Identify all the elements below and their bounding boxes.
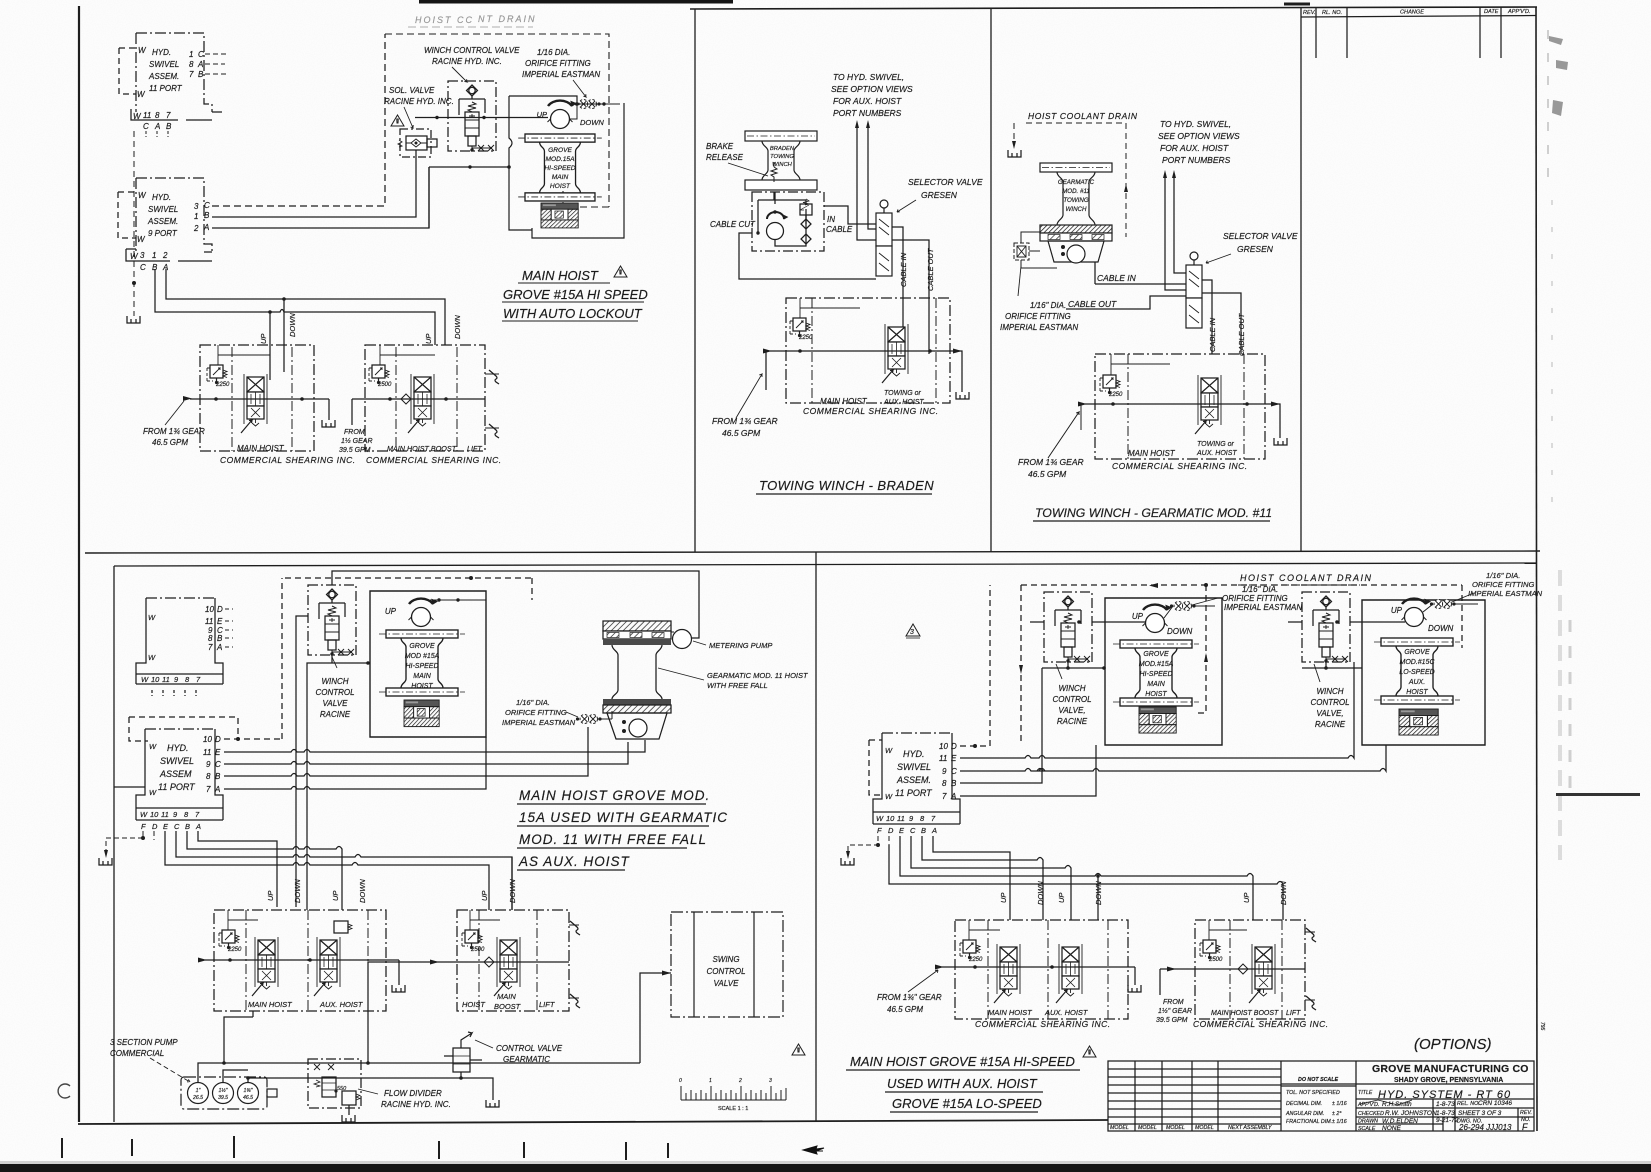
svg-text:BOOST: BOOST xyxy=(494,1002,522,1011)
wire B xyxy=(224,727,588,776)
svg-text:HI-SPEED: HI-SPEED xyxy=(1139,671,1172,678)
svg-text:REV.: REV. xyxy=(1520,1110,1532,1116)
svg-text:2500: 2500 xyxy=(1208,957,1223,963)
svg-text:W: W xyxy=(140,810,148,819)
grove mod 15A hoist drum xyxy=(518,134,602,201)
svg-text:FROM 1¾ GEAR: FROM 1¾ GEAR xyxy=(143,427,205,436)
main title free fall xyxy=(518,788,728,869)
svg-text:3: 3 xyxy=(910,629,914,636)
svg-text:HOIST: HOIST xyxy=(1406,689,1428,696)
svg-text:ORIFICE FITTING: ORIFICE FITTING xyxy=(525,59,591,68)
svg-text:B: B xyxy=(198,70,204,79)
winch control valve 1 xyxy=(1044,592,1092,663)
svg-text:9: 9 xyxy=(942,767,947,776)
wire A xyxy=(960,745,1096,796)
svg-text:FROM 1¾ GEAR: FROM 1¾ GEAR xyxy=(712,416,778,426)
svg-text:1/16" DIA.: 1/16" DIA. xyxy=(1242,585,1278,594)
svg-text:SCALE: SCALE xyxy=(1358,1126,1376,1132)
svg-text:10: 10 xyxy=(939,742,948,751)
svg-text:CABLE IN: CABLE IN xyxy=(899,252,908,287)
svg-text:8: 8 xyxy=(942,779,947,788)
svg-text:FROM 1¾ GEAR: FROM 1¾ GEAR xyxy=(1018,457,1084,467)
svg-text:CRN 10346: CRN 10346 xyxy=(1478,1100,1512,1107)
to hyd swivel note xyxy=(1158,119,1240,165)
svg-text:HYD.: HYD. xyxy=(152,193,171,202)
svg-text:8: 8 xyxy=(189,60,194,69)
control valve gearmatic xyxy=(444,1032,493,1100)
svg-text:TO HYD. SWIVEL,: TO HYD. SWIVEL, xyxy=(1160,119,1231,129)
svg-text:WITH FREE FALL: WITH FREE FALL xyxy=(707,681,768,690)
svg-text:1½ GEAR: 1½ GEAR xyxy=(341,437,373,445)
svg-text:46.5 GPM: 46.5 GPM xyxy=(887,1005,923,1014)
svg-text:W: W xyxy=(885,792,893,801)
svg-text:11 PORT: 11 PORT xyxy=(895,788,933,798)
svg-text:RACINE HYD. INC.: RACINE HYD. INC. xyxy=(384,97,454,106)
svg-text:DOWN: DOWN xyxy=(358,879,367,903)
svg-text:UP: UP xyxy=(1391,606,1403,615)
svg-text:RACINE HYD. INC.: RACINE HYD. INC. xyxy=(432,57,502,66)
svg-text:SELECTOR VALVE: SELECTOR VALVE xyxy=(1223,231,1298,241)
dashed riser hoist1 xyxy=(1196,585,1206,713)
svg-text:2: 2 xyxy=(162,251,168,260)
braden towing winch drum xyxy=(745,131,817,190)
svg-text:E: E xyxy=(217,617,223,626)
columns down into bank1 xyxy=(270,299,284,380)
svg-text:CONTROL: CONTROL xyxy=(706,967,745,976)
svg-text:BRAKE: BRAKE xyxy=(706,142,734,151)
svg-text:46.5 GPM: 46.5 GPM xyxy=(722,428,761,438)
main hoist assembly (free fall panel) xyxy=(370,591,486,737)
svg-text:VALVE,: VALVE, xyxy=(1058,706,1085,715)
svg-text:HYD.: HYD. xyxy=(167,743,189,753)
check valve xyxy=(401,394,411,404)
svg-text:C: C xyxy=(174,822,180,831)
svg-text:1: 1 xyxy=(709,1078,712,1084)
svg-text:SEE OPTION VIEWS: SEE OPTION VIEWS xyxy=(1158,131,1240,141)
svg-text:HI-SPEED: HI-SPEED xyxy=(405,663,438,670)
dashed drain header xyxy=(285,578,532,600)
svg-text:15A USED WITH GEARMATIC: 15A USED WITH GEARMATIC xyxy=(519,810,728,825)
svg-text:MAIN HOIST BOOST: MAIN HOIST BOOST xyxy=(1211,1010,1279,1017)
svg-text:F: F xyxy=(141,822,146,831)
orifice fitting gearmatic xyxy=(1014,232,1057,268)
svg-text:2250: 2250 xyxy=(798,335,813,341)
svg-text:D: D xyxy=(951,742,957,751)
main supply wire xyxy=(415,117,548,119)
svg-text:3: 3 xyxy=(769,1078,772,1084)
svg-text:MAIN HOIST: MAIN HOIST xyxy=(237,444,285,453)
hoist motor xyxy=(548,101,577,129)
svg-text:0: 0 xyxy=(679,1078,682,1084)
svg-text:CABLE OUT: CABLE OUT xyxy=(1068,299,1117,309)
wire riser xyxy=(429,167,509,228)
corner scribble xyxy=(58,1084,70,1098)
svg-text:TOWING or: TOWING or xyxy=(1197,441,1234,448)
svg-text:MAIN: MAIN xyxy=(413,673,431,680)
svg-text:7: 7 xyxy=(942,792,947,801)
svg-text:± 1/16: ± 1/16 xyxy=(1332,1119,1347,1125)
wire risers to swivel xyxy=(855,120,876,240)
svg-text:MAIN: MAIN xyxy=(1147,681,1165,688)
svg-text:COMMERCIAL SHEARING INC.: COMMERCIAL SHEARING INC. xyxy=(803,406,939,416)
svg-text:39.5 GPM: 39.5 GPM xyxy=(339,447,371,454)
wire B xyxy=(960,668,1042,783)
svg-text:B: B xyxy=(204,211,210,220)
line break marks xyxy=(485,374,499,428)
svg-text:1/16" DIA.: 1/16" DIA. xyxy=(1030,301,1066,310)
svg-text:TOL. NOT SPECIFIED: TOL. NOT SPECIFIED xyxy=(1286,1090,1340,1096)
svg-text:CHANGE: CHANGE xyxy=(1400,10,1424,16)
svg-text:REL. NO.: REL. NO. xyxy=(1457,1101,1480,1107)
svg-text:39.5 GPM: 39.5 GPM xyxy=(1156,1017,1188,1024)
feed line bank1 xyxy=(190,399,329,420)
svg-text:FROM 1¾" GEAR: FROM 1¾" GEAR xyxy=(877,993,942,1002)
svg-text:NONE: NONE xyxy=(1382,1125,1401,1132)
wire bundle A xyxy=(198,831,277,907)
svg-text:10: 10 xyxy=(203,735,212,744)
svg-text:MOD. #11: MOD. #11 xyxy=(1062,188,1090,195)
wire C xyxy=(224,742,628,764)
svg-text:LO-SPEED: LO-SPEED xyxy=(1399,669,1434,676)
svg-text:A: A xyxy=(203,223,209,232)
svg-text:39.5: 39.5 xyxy=(218,1095,228,1101)
swing control valve xyxy=(671,912,783,1017)
bottom scan strip xyxy=(0,1164,1651,1172)
wcv risers down xyxy=(296,616,370,910)
svg-text:CABLE OUT: CABLE OUT xyxy=(1237,312,1246,356)
svg-text:WINCH: WINCH xyxy=(772,162,792,168)
swivel mirror profile (upper) xyxy=(136,598,223,696)
svg-text:VALVE: VALVE xyxy=(323,699,349,708)
bundle ground xyxy=(848,836,889,853)
svg-text:26-294 JJJ013: 26-294 JJJ013 xyxy=(1458,1123,1512,1132)
main hoist enclosure xyxy=(509,96,624,238)
svg-text:HOIST COOLANT DRAIN: HOIST COOLANT DRAIN xyxy=(1240,573,1373,583)
hoist coolant drain label (faded) xyxy=(408,14,537,27)
right edge smudges xyxy=(1548,30,1570,860)
wire bundle F ground xyxy=(106,831,154,852)
svg-text:3: 3 xyxy=(194,202,199,211)
svg-text:HOIST: HOIST xyxy=(411,683,433,690)
svg-text:MOD. 11 WITH FREE FALL: MOD. 11 WITH FREE FALL xyxy=(519,832,707,847)
svg-text:2250: 2250 xyxy=(227,947,242,953)
svg-text:WINCH: WINCH xyxy=(1316,687,1343,696)
spool side rails xyxy=(244,324,1275,994)
svg-text:7: 7 xyxy=(206,785,211,794)
svg-text:UP: UP xyxy=(424,334,433,344)
svg-text:FLOW DIVIDER: FLOW DIVIDER xyxy=(384,1089,442,1098)
svg-text:WITH AUTO LOCKOUT: WITH AUTO LOCKOUT xyxy=(503,306,643,321)
svg-text:GEARMATIC MOD. 11 HOIST: GEARMATIC MOD. 11 HOIST xyxy=(707,671,809,680)
wire bundle C xyxy=(176,831,512,910)
svg-text:HI-SPEED: HI-SPEED xyxy=(544,165,575,172)
svg-text:HOIST: HOIST xyxy=(550,183,571,190)
solenoid valve xyxy=(398,129,437,157)
svg-text:IMPERIAL EASTMAN: IMPERIAL EASTMAN xyxy=(1224,603,1302,612)
svg-text:9 PORT: 9 PORT xyxy=(148,229,178,238)
svg-text:W: W xyxy=(876,814,884,823)
svg-text:CABLE OUT: CABLE OUT xyxy=(926,247,935,291)
svg-text:DECIMAL DIM.: DECIMAL DIM. xyxy=(1286,1101,1322,1107)
valve bank 1: main hoist xyxy=(200,345,314,451)
svg-text:46.5 GPM: 46.5 GPM xyxy=(1028,469,1067,479)
svg-text:GEARMATIC: GEARMATIC xyxy=(1058,179,1095,186)
svg-text:10: 10 xyxy=(205,605,214,614)
svg-text:UP: UP xyxy=(480,891,489,901)
svg-text:RACINE HYD. INC.: RACINE HYD. INC. xyxy=(381,1100,451,1109)
wire from border to W xyxy=(114,786,145,788)
svg-text:D: D xyxy=(217,605,223,614)
flow divider xyxy=(308,1059,361,1115)
svg-text:IN: IN xyxy=(827,215,835,224)
winch control valve (free fall panel) xyxy=(308,585,356,656)
svg-text:UP: UP xyxy=(1057,893,1066,903)
svg-text:1-8-73: 1-8-73 xyxy=(1436,1110,1455,1117)
valve bank B (options) xyxy=(1195,920,1305,1019)
orifice fitting xyxy=(575,100,601,109)
valve bank 2: boost lift xyxy=(365,345,485,451)
wire B from 9 port xyxy=(212,136,416,217)
svg-text:MODEL: MODEL xyxy=(1195,1125,1214,1131)
svg-text:COMMERCIAL: COMMERCIAL xyxy=(110,1049,164,1058)
svg-text:BRADEN: BRADEN xyxy=(770,146,795,152)
wire A from 9 port xyxy=(212,167,429,228)
svg-text:2250: 2250 xyxy=(1108,392,1123,398)
svg-text:A: A xyxy=(154,122,160,131)
brake release spring xyxy=(771,162,777,182)
svg-text:MAIN HOIST: MAIN HOIST xyxy=(988,1008,1033,1017)
svg-text:MAIN HOIST: MAIN HOIST xyxy=(248,1000,293,1009)
svg-text:GROVE #15A LO-SPEED: GROVE #15A LO-SPEED xyxy=(892,1096,1042,1111)
svg-text:MAIN HOIST: MAIN HOIST xyxy=(522,268,599,283)
svg-text:MAIN HOIST BOOST: MAIN HOIST BOOST xyxy=(387,444,457,453)
svg-text:COMMERCIAL SHEARING INC.: COMMERCIAL SHEARING INC. xyxy=(220,455,356,465)
svg-text:SHEET 3 OF 3: SHEET 3 OF 3 xyxy=(1458,1110,1502,1117)
svg-text:HYD.: HYD. xyxy=(903,749,925,759)
svg-text:CABLE IN: CABLE IN xyxy=(1097,273,1137,283)
wire C dashed from 9 port xyxy=(212,34,385,206)
svg-text:D: D xyxy=(888,826,894,835)
svg-text:2250: 2250 xyxy=(968,957,983,963)
svg-text:MAIN HOIST: MAIN HOIST xyxy=(1128,449,1176,458)
svg-text:F: F xyxy=(1522,1122,1528,1132)
svg-text:W: W xyxy=(148,613,156,622)
wire bundle B xyxy=(187,831,342,910)
svg-text:ORIFICE FITTING: ORIFICE FITTING xyxy=(505,708,567,717)
svg-text:IMPERIAL EASTMAN: IMPERIAL EASTMAN xyxy=(1468,589,1543,598)
svg-text:SWIVEL: SWIVEL xyxy=(897,762,931,772)
svg-text:DATE: DATE xyxy=(1484,9,1499,15)
to hyd swivel note xyxy=(831,72,913,118)
svg-text:795: 795 xyxy=(1539,1022,1545,1031)
svg-text:COMMERCIAL SHEARING INC.: COMMERCIAL SHEARING INC. xyxy=(1193,1019,1329,1029)
svg-text:GEARMATIC: GEARMATIC xyxy=(503,1055,550,1064)
swing feed wire xyxy=(640,973,671,1063)
svg-text:C: C xyxy=(143,122,149,131)
hyd swivel assem 11 port (options) xyxy=(869,733,960,824)
svg-text:11: 11 xyxy=(205,617,213,626)
wire winch to selector xyxy=(739,206,876,279)
svg-text:UP: UP xyxy=(1242,893,1251,903)
svg-text:DOWN: DOWN xyxy=(288,313,297,337)
gearmatic valve bank xyxy=(1095,354,1265,459)
svg-text:D: D xyxy=(215,735,221,744)
svg-text:WINCH: WINCH xyxy=(321,677,348,686)
warning triangle xyxy=(792,1044,805,1055)
bank inner partitions xyxy=(232,298,1282,1019)
svg-text:COMMERCIAL SHEARING INC.: COMMERCIAL SHEARING INC. xyxy=(975,1019,1111,1029)
pump risers xyxy=(198,962,640,1082)
svg-text:SOL. VALVE: SOL. VALVE xyxy=(389,86,435,95)
svg-text:11: 11 xyxy=(939,754,947,763)
svg-text:MAIN HOIST GROVE MOD.: MAIN HOIST GROVE MOD. xyxy=(519,788,710,803)
svg-text:AUX. HOIST: AUX. HOIST xyxy=(1044,1008,1089,1017)
svg-text:SWIVEL: SWIVEL xyxy=(160,756,194,766)
warning triangle xyxy=(391,115,404,126)
svg-text:WINCH: WINCH xyxy=(1066,206,1087,213)
note triangle 3 xyxy=(906,624,920,638)
svg-text:SHADY GROVE, PENNSYLVANIA: SHADY GROVE, PENNSYLVANIA xyxy=(1394,1077,1503,1084)
braden valve box xyxy=(752,192,824,251)
svg-text:UP: UP xyxy=(331,891,340,901)
svg-text:11 PORT: 11 PORT xyxy=(158,782,196,792)
svg-text:2250: 2250 xyxy=(215,382,230,388)
svg-text:CONTROL: CONTROL xyxy=(1052,695,1091,704)
svg-text:SWING: SWING xyxy=(712,955,739,964)
svg-text:RELEASE: RELEASE xyxy=(706,153,744,162)
wire D dashed riser xyxy=(224,578,282,739)
warning triangle xyxy=(614,266,627,277)
svg-text:SWIVEL: SWIVEL xyxy=(148,205,178,214)
svg-text:UP: UP xyxy=(999,893,1008,903)
svg-text:UP: UP xyxy=(537,110,547,119)
svg-text:2500: 2500 xyxy=(377,382,392,388)
valve bank B boost lift xyxy=(457,910,569,1011)
svg-text:MAIN: MAIN xyxy=(552,174,569,181)
svg-text:1: 1 xyxy=(152,251,156,260)
revision table xyxy=(1301,7,1536,58)
svg-text:FRACTIONAL DIM.: FRACTIONAL DIM. xyxy=(1286,1119,1332,1125)
svg-text:GROVE: GROVE xyxy=(1404,649,1430,656)
svg-text:SELECTOR VALVE: SELECTOR VALVE xyxy=(908,177,983,187)
svg-text:1/16 DIA.: 1/16 DIA. xyxy=(537,48,570,57)
dashed enclosure box xyxy=(385,34,609,207)
svg-text:RACINE: RACINE xyxy=(1057,717,1088,726)
svg-text:ASSEM: ASSEM xyxy=(159,769,192,779)
svg-text:A: A xyxy=(950,792,956,801)
svg-text:7: 7 xyxy=(166,111,171,120)
svg-text:VALVE,: VALVE, xyxy=(1316,709,1343,718)
svg-text:HOIST CC: HOIST CC xyxy=(415,15,474,25)
svg-text:W: W xyxy=(148,653,156,662)
svg-text:DOWN: DOWN xyxy=(1167,627,1193,636)
winch control valve xyxy=(448,81,496,152)
svg-text:DOWN: DOWN xyxy=(1428,624,1454,633)
svg-text:2: 2 xyxy=(193,224,199,233)
svg-text:CONTROL VALVE: CONTROL VALVE xyxy=(496,1044,563,1053)
svg-text:GROVE #15A HI SPEED: GROVE #15A HI SPEED xyxy=(503,287,648,302)
svg-text:DOWN: DOWN xyxy=(453,315,462,339)
svg-text:D: D xyxy=(152,822,158,831)
svg-text:B: B xyxy=(185,822,190,831)
wire C xyxy=(960,745,1386,771)
svg-text:SEE OPTION VIEWS: SEE OPTION VIEWS xyxy=(831,84,913,94)
svg-text:TOWING WINCH - GEARMATIC MOD: TOWING WINCH - GEARMATIC MOD. #11 xyxy=(1035,506,1272,520)
svg-text:3: 3 xyxy=(140,251,145,260)
svg-text:C: C xyxy=(198,50,204,59)
svg-text:PORT NUMBERS: PORT NUMBERS xyxy=(833,108,902,118)
svg-text:IMPERIAL EASTMAN: IMPERIAL EASTMAN xyxy=(502,718,576,727)
svg-text:26.5: 26.5 xyxy=(192,1095,203,1101)
svg-text:W: W xyxy=(149,788,157,797)
svg-text:VALVE: VALVE xyxy=(714,979,740,988)
svg-text:AUX.: AUX. xyxy=(1408,679,1425,686)
wire bundle E xyxy=(165,831,489,910)
hyd swivel assem 9 port xyxy=(118,178,212,261)
svg-text:REV.: REV. xyxy=(1303,10,1316,16)
svg-text:CONTROL: CONTROL xyxy=(1310,698,1349,707)
svg-text:CABLE CUT: CABLE CUT xyxy=(710,220,756,229)
svg-text:MOD #15A: MOD #15A xyxy=(405,653,440,660)
aux hoist assembly 2 xyxy=(1362,600,1485,745)
svg-text:FOR AUX. HOIST: FOR AUX. HOIST xyxy=(1160,143,1229,153)
svg-text:UP: UP xyxy=(259,334,268,344)
svg-text:C: C xyxy=(951,767,957,776)
gearmatic mod 11 free fall hoist xyxy=(603,621,671,739)
svg-text:AS AUX. HOIST: AS AUX. HOIST xyxy=(518,854,631,869)
svg-text:DOWN: DOWN xyxy=(1094,881,1103,905)
svg-text:CHECKED: CHECKED xyxy=(1358,1111,1384,1117)
svg-text:WINCH CONTROL VALVE: WINCH CONTROL VALVE xyxy=(424,46,520,55)
svg-text:AUX. HOIST: AUX. HOIST xyxy=(1196,450,1237,457)
svg-text:10: 10 xyxy=(886,814,895,823)
svg-text:NT DRAIN: NT DRAIN xyxy=(478,14,537,24)
svg-text:E: E xyxy=(215,748,221,757)
hyd swivel assem 11 port (top) xyxy=(119,33,222,120)
registration arrow mark xyxy=(803,1146,824,1154)
svg-text:2500: 2500 xyxy=(470,947,485,953)
wire A xyxy=(224,737,486,789)
hoist brake block xyxy=(541,203,578,228)
svg-text:IMPERIAL EASTMAN: IMPERIAL EASTMAN xyxy=(1000,323,1078,332)
wire A/B bus to valve banks xyxy=(166,269,445,345)
wcv1 wires xyxy=(1030,622,1146,668)
svg-text:A: A xyxy=(931,826,937,835)
svg-text:GROVE: GROVE xyxy=(548,147,572,154)
main hoist title xyxy=(503,268,648,321)
svg-text:CABLE: CABLE xyxy=(826,225,853,234)
svg-text:W: W xyxy=(141,675,149,684)
svg-text:R.W. JOHNSTON: R.W. JOHNSTON xyxy=(1385,1110,1437,1117)
wire E xyxy=(224,740,645,752)
svg-text:B: B xyxy=(921,826,926,835)
svg-text:MOD.#15A: MOD.#15A xyxy=(1139,661,1174,668)
svg-text:ORIFICE FITTING: ORIFICE FITTING xyxy=(1222,594,1288,603)
svg-text:W: W xyxy=(885,746,893,755)
svg-text:11: 11 xyxy=(203,748,211,757)
svg-text:AUX. HOIST: AUX. HOIST xyxy=(319,1000,364,1009)
ground under swivels xyxy=(132,281,136,285)
svg-text:TOWING: TOWING xyxy=(1063,197,1089,204)
svg-text:ASSEM.: ASSEM. xyxy=(896,775,931,785)
svg-text:1-8-73: 1-8-73 xyxy=(1436,1101,1455,1108)
svg-text:B: B xyxy=(166,122,172,131)
svg-text:UP: UP xyxy=(1132,612,1144,621)
feed line bank2 xyxy=(352,399,485,425)
svg-text:1: 1 xyxy=(194,212,198,221)
svg-text:TOWING WINCH - BRADEN: TOWING WINCH - BRADEN xyxy=(759,478,934,493)
svg-text:DOWN: DOWN xyxy=(293,879,302,903)
